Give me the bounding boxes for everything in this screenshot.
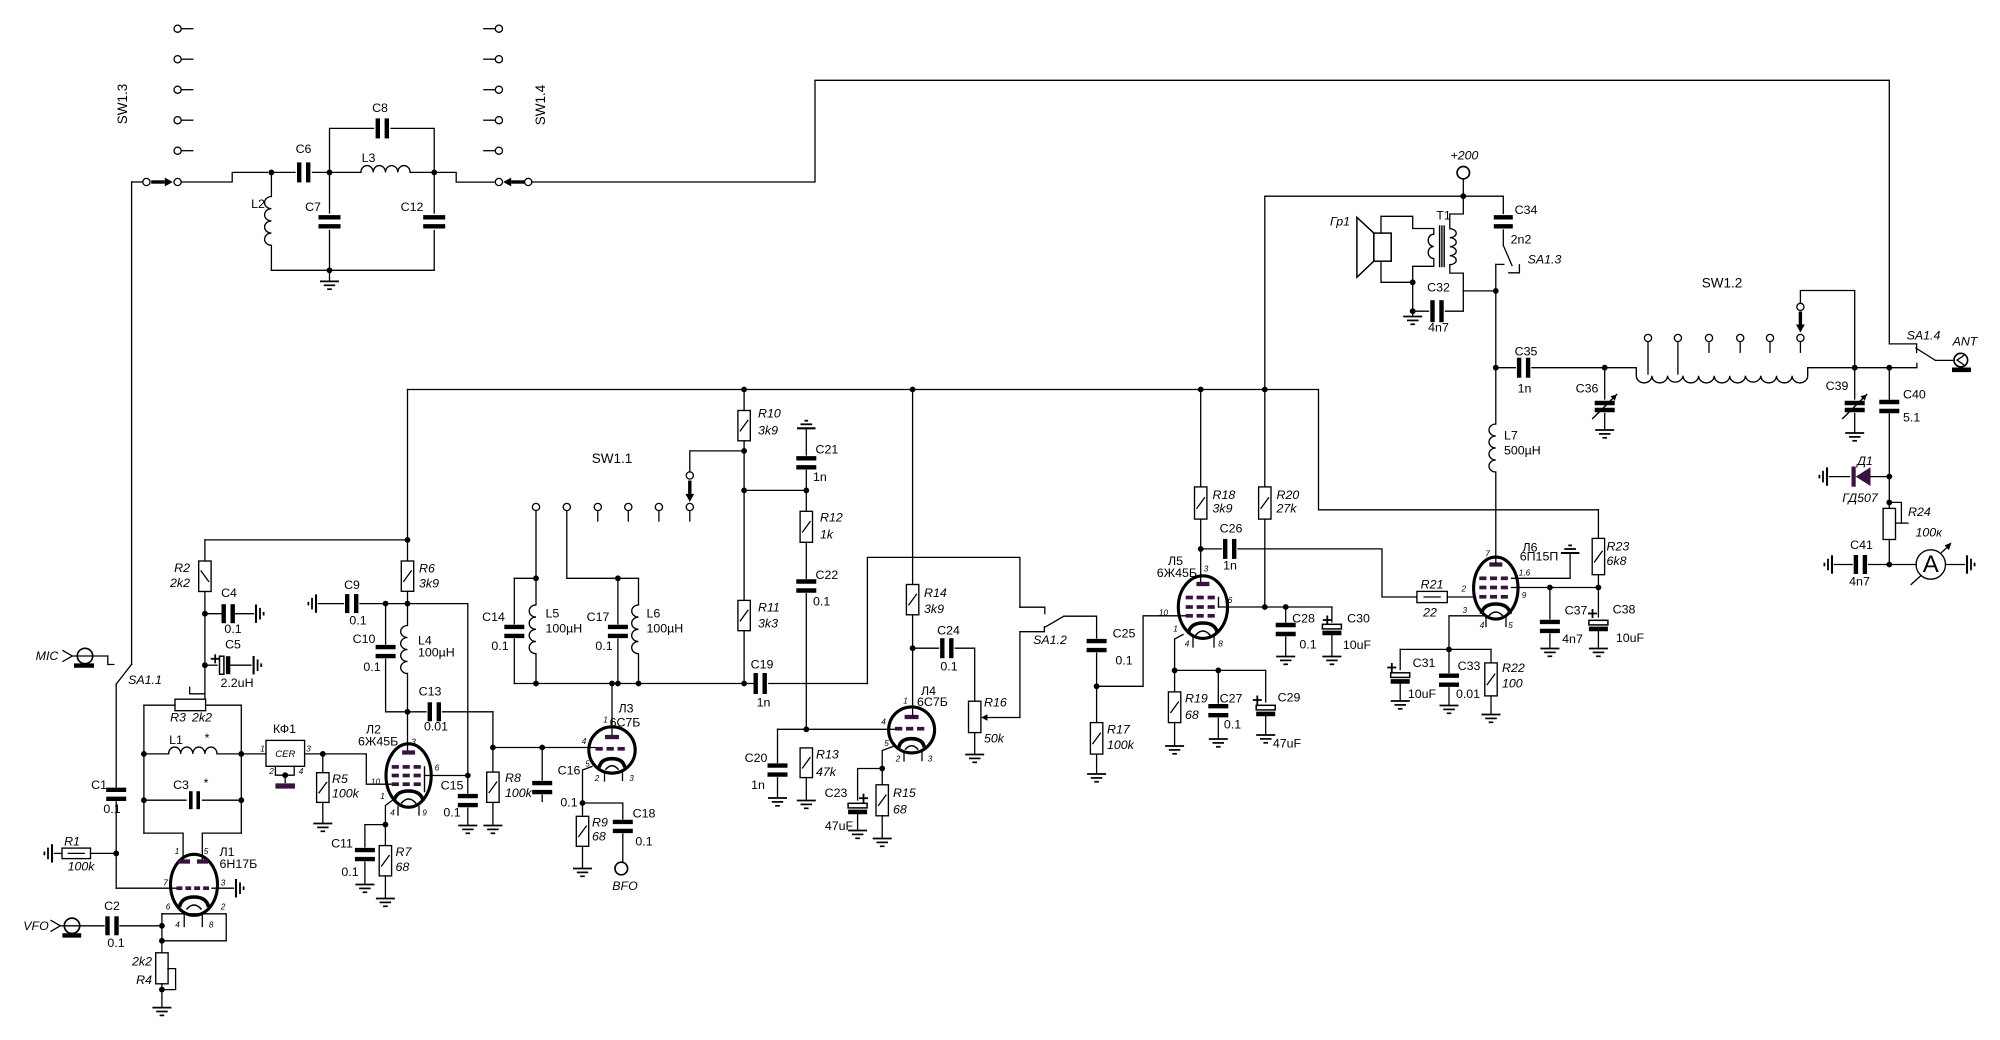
svg-text:0.1: 0.1: [1299, 638, 1316, 652]
resistor R2: [204, 540, 206, 561]
tube V4 (Л4 6С7Б): [889, 707, 935, 753]
node C25/R17: [1094, 683, 1100, 689]
wire C19 riser to SA1.2: [867, 557, 1020, 683]
capacitor C38: [1597, 588, 1599, 618]
resistor R22: [1490, 649, 1492, 663]
svg-text:6П15П: 6П15П: [1520, 550, 1559, 564]
capacitor C40: [1888, 368, 1890, 399]
svg-text:L1: L1: [169, 733, 183, 747]
node R14 bottom / V4 anode: [910, 645, 916, 651]
wire L1 tank to КФ1 pin 1: [241, 753, 266, 755]
svg-text:0.1: 0.1: [595, 639, 612, 653]
svg-text:R14: R14: [924, 586, 947, 600]
capacitor C4: [205, 613, 221, 615]
resistor R15: [881, 769, 883, 785]
svg-text:3: 3: [1204, 565, 1209, 574]
tube V5 (Л5 6Ж45Б): [1178, 576, 1227, 639]
svg-text:C28: C28: [1292, 612, 1315, 626]
svg-text:*: *: [205, 731, 210, 745]
svg-text:6: 6: [166, 903, 171, 912]
capacitor C32: [1413, 310, 1429, 312]
svg-text:C27: C27: [1220, 692, 1243, 706]
svg-text:C32: C32: [1427, 281, 1450, 295]
svg-text:8: 8: [209, 921, 214, 930]
ground C37: [1540, 648, 1559, 650]
capacitor C7: [329, 172, 331, 213]
wire grid to tube pin 7: [116, 887, 176, 889]
svg-text:SW1.3: SW1.3: [115, 84, 130, 125]
ground R16: [965, 754, 984, 756]
svg-text:6Ж45Б: 6Ж45Б: [1157, 566, 1197, 580]
svg-text:R9: R9: [592, 816, 608, 830]
wire SW1.3 pole down to SA1.1: [132, 181, 143, 183]
wire C13 to V3 grid row: [492, 712, 494, 748]
meter A: [1889, 564, 1916, 566]
svg-text:C34: C34: [1515, 203, 1538, 217]
wire T1 secondary top: [1450, 196, 1464, 229]
svg-text:3k3: 3k3: [758, 617, 778, 631]
svg-text:3: 3: [221, 879, 226, 888]
svg-text:SA1.4: SA1.4: [1907, 329, 1941, 343]
svg-text:1k: 1k: [820, 528, 834, 542]
svg-text:50k: 50k: [984, 732, 1005, 746]
svg-text:3: 3: [1462, 606, 1467, 615]
svg-text:A: A: [1923, 551, 1939, 578]
node R18/C26/V5 anode: [1198, 546, 1204, 552]
capacitor C27: [1217, 670, 1219, 703]
svg-text:0.1: 0.1: [491, 639, 508, 653]
node R8 top: [490, 745, 496, 751]
wire meter to terminal: [1946, 564, 1965, 566]
ground filter: [329, 270, 331, 281]
switch SW1.1 common pole: [686, 472, 693, 479]
svg-text:MIC: MIC: [36, 649, 60, 663]
wire output row: [1808, 363, 1917, 367]
tube V3 bottom stubs: [604, 773, 606, 782]
node C: [431, 170, 437, 176]
terminal above C21: [797, 427, 815, 429]
ground R4: [152, 1007, 171, 1009]
svg-text:C5: C5: [225, 638, 241, 652]
svg-text:ГД507: ГД507: [1842, 491, 1879, 505]
switch SA1.3: [1502, 230, 1504, 246]
svg-text:3: 3: [928, 755, 933, 764]
wire SA1.2 to C25: [1064, 616, 1097, 638]
capacitor C21: [796, 456, 816, 460]
svg-text:R16: R16: [984, 696, 1007, 710]
ground C28: [1276, 656, 1295, 658]
КФ1 pins 2,4 to termination: [275, 766, 294, 775]
ground R17: [1087, 773, 1106, 775]
wire V2 anode to pin 3: [407, 712, 409, 752]
wire anode rail of V2: [408, 604, 468, 776]
capacitor C19: [754, 673, 758, 694]
svg-text:1: 1: [603, 716, 608, 725]
svg-text:R5: R5: [332, 772, 348, 786]
capacitor C26: [1201, 548, 1222, 550]
svg-text:68: 68: [592, 830, 606, 844]
wire cathode loop: [162, 914, 226, 941]
resistor R17: [1096, 686, 1098, 722]
svg-text:100k: 100k: [1107, 738, 1135, 752]
svg-text:C31: C31: [1413, 656, 1436, 670]
svg-text:10uF: 10uF: [1408, 687, 1437, 701]
capacitor C14: [513, 578, 515, 624]
ground C31: [1391, 700, 1410, 702]
wire +B rail upper: [408, 390, 1599, 510]
node V3 cathode: [580, 800, 586, 806]
tube V3 (Л3 6С7Б): [589, 727, 635, 773]
node C4: [202, 611, 208, 617]
resistor R5: [322, 754, 324, 773]
wire C25 to V5 grid: [1097, 616, 1186, 687]
svg-text:0.1: 0.1: [560, 796, 577, 810]
svg-text:100µH: 100µH: [418, 646, 455, 660]
svg-text:0.1: 0.1: [1224, 718, 1241, 732]
inductor L4: [407, 604, 409, 626]
node R20 top (+200 feed): [1262, 387, 1268, 393]
wire R10 to R11: [743, 451, 745, 601]
resistor R21: [1417, 591, 1447, 602]
ground C33: [1440, 705, 1459, 707]
svg-text:0.1: 0.1: [103, 802, 120, 816]
node R1/C1: [113, 851, 119, 857]
wire SW1.3 pole to filter input: [181, 172, 267, 182]
svg-text:3: 3: [306, 745, 311, 754]
resistor R14: [906, 585, 918, 615]
wire T1 secondary bottom: [1450, 265, 1464, 291]
switch SW1.2 taps: [1644, 334, 1651, 341]
svg-text:0.1: 0.1: [635, 835, 652, 849]
svg-text:2k2: 2k2: [169, 576, 190, 590]
wire R6 column to upper rail: [407, 390, 409, 562]
ground R13: [797, 800, 816, 802]
ground C36: [1595, 429, 1614, 431]
node V5 cathode: [1172, 668, 1178, 674]
svg-text:C2: C2: [104, 899, 120, 913]
wire +200 feed: [1265, 196, 1464, 389]
tube V6 heater stubs: [1485, 617, 1487, 627]
tube V1 heater stubs: [183, 915, 185, 927]
svg-text:6: 6: [435, 764, 440, 773]
tube V6 g2 to terminal: [1512, 555, 1571, 579]
svg-text:C14: C14: [482, 610, 505, 624]
svg-text:0.1: 0.1: [107, 936, 124, 950]
svg-text:5: 5: [1508, 621, 1513, 630]
svg-text:C16: C16: [558, 764, 581, 778]
svg-text:C4: C4: [221, 586, 237, 600]
svg-text:C25: C25: [1113, 627, 1136, 641]
capacitor C6: [271, 171, 295, 173]
svg-text:22: 22: [1422, 606, 1437, 620]
svg-text:2.2uH: 2.2uH: [220, 676, 253, 690]
capacitor C28: [1285, 607, 1287, 622]
wire to C32: [1412, 282, 1414, 311]
node C36: [1602, 365, 1608, 371]
svg-text:4: 4: [175, 921, 180, 930]
wire C1 to grid node: [115, 802, 117, 888]
node R11 bottom: [741, 681, 747, 687]
inductor L5: [535, 578, 537, 605]
svg-text:68: 68: [396, 860, 410, 874]
ground C30: [1322, 656, 1341, 658]
svg-text:R10: R10: [758, 407, 781, 421]
svg-text:3: 3: [629, 774, 634, 783]
capacitor C29: [1265, 670, 1267, 702]
svg-text:0.1: 0.1: [443, 806, 460, 820]
node V2 anode / C15: [465, 773, 471, 779]
svg-text:9: 9: [422, 809, 427, 818]
svg-text:4: 4: [582, 737, 587, 746]
tube V5 cathode lead: [1175, 635, 1183, 671]
switch SW1.3 common pole: [143, 178, 150, 185]
ground R5: [313, 823, 332, 825]
svg-text:T1: T1: [1436, 209, 1451, 223]
svg-text:4: 4: [1185, 640, 1190, 649]
svg-text:6С7Б: 6С7Б: [610, 716, 641, 730]
node R10/SW1.1: [741, 448, 747, 454]
resistor R19: [1174, 670, 1176, 692]
svg-text:R7: R7: [396, 845, 413, 859]
wire +200 to C34: [1463, 196, 1503, 213]
wire T1 primary top loop: [1381, 216, 1434, 234]
capacitor C2: [105, 916, 109, 935]
resistor R13: [800, 748, 812, 778]
node C28: [1283, 604, 1289, 610]
node L4/C13/V2 anode: [405, 709, 411, 715]
svg-text:C3: C3: [173, 778, 189, 792]
node T1 secondary / SA1.3: [1493, 288, 1499, 294]
capacitor C22: [796, 579, 816, 583]
capacitor C17: [617, 578, 619, 624]
svg-text:C6: C6: [296, 142, 312, 156]
svg-text:10: 10: [371, 778, 381, 787]
svg-text:VFO: VFO: [23, 919, 49, 933]
tube V6 pin 9 row: [1512, 587, 1599, 589]
node V4 cathode: [879, 766, 885, 772]
ground C38: [1589, 648, 1608, 650]
svg-text:R8: R8: [505, 771, 521, 785]
wire КФ1 pin 3 to R5 and V2 grid: [305, 754, 392, 784]
ground R7: [376, 898, 395, 900]
svg-text:R19: R19: [1185, 692, 1208, 706]
svg-text:6Ж45Б: 6Ж45Б: [358, 735, 398, 749]
svg-text:R4: R4: [136, 973, 152, 987]
switch SA1.2: [1020, 607, 1045, 613]
svg-text:1: 1: [380, 792, 385, 801]
svg-text:R12: R12: [820, 511, 843, 525]
svg-text:R20: R20: [1277, 488, 1300, 502]
svg-text:КФ1: КФ1: [273, 722, 296, 736]
svg-text:R21: R21: [1421, 578, 1444, 592]
resistor R1: [51, 844, 53, 862]
svg-text:100k: 100k: [505, 786, 533, 800]
svg-text:C35: C35: [1515, 345, 1538, 359]
node C5: [202, 662, 208, 668]
ground C11: [355, 884, 374, 886]
svg-text:R15: R15: [893, 786, 916, 800]
wire SW1.1 pole to R10: [690, 451, 744, 472]
capacitor C30: [1331, 607, 1333, 622]
variable capacitor C39: [1854, 368, 1856, 399]
wire speaker bottom loop: [1381, 261, 1413, 282]
svg-text:27k: 27k: [1276, 502, 1298, 516]
svg-text:R18: R18: [1213, 488, 1236, 502]
capacitor C31: [1399, 649, 1401, 669]
tube V1 pin 3 to chassis: [212, 887, 234, 889]
svg-text:SA1.1: SA1.1: [128, 673, 162, 687]
capacitor C23: [858, 769, 883, 801]
svg-text:C12: C12: [401, 200, 424, 214]
resistor R20: [1264, 390, 1266, 487]
resistor R23: [1597, 510, 1599, 539]
ground R15: [873, 838, 892, 840]
svg-text:Д1: Д1: [1855, 454, 1873, 468]
svg-text:R23: R23: [1607, 540, 1630, 554]
switch SA1.4: [1889, 344, 1916, 352]
wire MIC to SA1.1: [108, 656, 114, 665]
resistor R3 with trimmer tap: [190, 687, 205, 694]
svg-text:0.1: 0.1: [813, 595, 830, 609]
capacitor C20: [777, 729, 779, 762]
tube V2 heater stubs: [397, 807, 399, 816]
filter КФ1: [266, 740, 305, 766]
potentiometer R16: [969, 701, 981, 732]
svg-text:10uF: 10uF: [1616, 631, 1645, 645]
svg-text:SA1.3: SA1.3: [1528, 253, 1562, 267]
ground R9: [573, 868, 592, 870]
resistor R8: [492, 748, 494, 773]
svg-text:5.1: 5.1: [1903, 411, 1920, 425]
wire SA1.1 to C1: [115, 684, 117, 787]
svg-text:L3: L3: [362, 151, 376, 165]
svg-text:4n7: 4n7: [1562, 632, 1583, 646]
capacitor C33: [1448, 649, 1450, 672]
svg-text:C41: C41: [1850, 538, 1873, 552]
tank frame right rail: [206, 704, 242, 706]
svg-text:4: 4: [881, 718, 886, 727]
svg-text:100: 100: [1502, 677, 1523, 691]
tube V6 cathode lead: [1449, 616, 1485, 650]
svg-text:100k: 100k: [68, 860, 96, 874]
svg-text:C36: C36: [1576, 382, 1599, 396]
svg-text:7: 7: [163, 879, 168, 888]
switch SW1.4 common pole: [495, 178, 502, 185]
svg-text:L7: L7: [1504, 429, 1518, 443]
svg-text:4n7: 4n7: [1849, 575, 1870, 589]
resistor R4: [161, 941, 163, 953]
svg-text:C11: C11: [331, 837, 353, 851]
svg-text:1n: 1n: [751, 778, 765, 792]
svg-text:9: 9: [1522, 591, 1527, 600]
svg-text:47k: 47k: [816, 765, 837, 779]
svg-text:Л3: Л3: [618, 702, 633, 716]
switch SW1.4 contacts: [495, 25, 502, 32]
ground R8: [483, 825, 502, 827]
resistor R7: [384, 825, 386, 846]
wire V4 grid row: [778, 728, 896, 730]
wire C5 node to R3: [204, 665, 206, 699]
svg-text:C19: C19: [751, 658, 774, 672]
svg-text:2: 2: [268, 767, 274, 776]
switch SW1.1 contacts: [532, 503, 539, 510]
node divider C21 row: [741, 488, 747, 494]
svg-text:C33: C33: [1458, 659, 1481, 673]
svg-text:SW1.2: SW1.2: [1702, 276, 1743, 291]
svg-text:C22: C22: [816, 568, 839, 582]
svg-text:1n: 1n: [1223, 559, 1237, 573]
ground R22: [1482, 714, 1501, 716]
inductor L6: [638, 578, 640, 605]
svg-text:C38: C38: [1613, 603, 1636, 617]
svg-text:R17: R17: [1107, 723, 1131, 737]
node C41/meter: [1886, 562, 1892, 568]
capacitor C34: [1494, 215, 1513, 219]
capacitor C18: [583, 803, 623, 819]
switch SA1.1: [116, 664, 131, 684]
resistor R10: [743, 390, 745, 411]
capacitor C1: [106, 788, 126, 792]
svg-text:1n: 1n: [757, 696, 771, 710]
terminal BFO: [615, 862, 628, 875]
svg-text:C10: C10: [353, 632, 376, 646]
wire IF bottom rail: [514, 683, 753, 685]
svg-text:10: 10: [1159, 609, 1169, 618]
capacitor C5: [205, 664, 217, 666]
svg-text:C39: C39: [1826, 379, 1849, 393]
svg-text:R6: R6: [419, 562, 435, 576]
svg-text:0.01: 0.01: [424, 720, 448, 734]
wire R2 rail to R6 rail: [205, 539, 408, 541]
svg-text:47uF: 47uF: [1273, 737, 1302, 751]
tube V6 (Л6 6П15П): [1474, 557, 1518, 619]
wire V3 grid row: [493, 747, 596, 749]
tank frame bottom to tube pins 1,5: [144, 833, 183, 861]
resistor R11: [738, 600, 750, 630]
svg-text:1: 1: [903, 697, 908, 706]
svg-text:4n7: 4n7: [1428, 321, 1449, 335]
ground C39: [1845, 432, 1864, 434]
svg-text:R13: R13: [816, 748, 839, 762]
ground C20: [768, 797, 787, 799]
node B: [327, 170, 333, 176]
node D1: [1886, 474, 1892, 480]
svg-text:C20: C20: [745, 751, 768, 765]
node R18 top: [1198, 387, 1204, 393]
resistor R9: [582, 803, 584, 816]
ground C32: [1412, 311, 1414, 315]
svg-text:68: 68: [1185, 708, 1199, 722]
ground C27: [1209, 738, 1228, 740]
wire R14 column: [912, 390, 914, 585]
svg-text:100к: 100к: [1916, 526, 1944, 540]
wire T1 primary bottom: [1413, 259, 1434, 283]
svg-text:L6: L6: [647, 607, 661, 621]
node C9/C10: [383, 601, 389, 607]
svg-text:C18: C18: [633, 807, 656, 821]
inductor L2: [270, 172, 272, 196]
capacitor C3: [144, 799, 186, 801]
tube V3 cathode lead: [583, 767, 593, 804]
capacitor C15: [467, 776, 469, 794]
svg-text:2: 2: [220, 903, 226, 912]
tube V2 (Л2 6Ж45Б): [386, 744, 431, 807]
capacitor C9: [315, 594, 317, 612]
svg-text:R24: R24: [1908, 505, 1931, 519]
node C16: [539, 745, 545, 751]
svg-text:0.01: 0.01: [1456, 687, 1480, 701]
svg-text:3k9: 3k9: [924, 602, 944, 616]
